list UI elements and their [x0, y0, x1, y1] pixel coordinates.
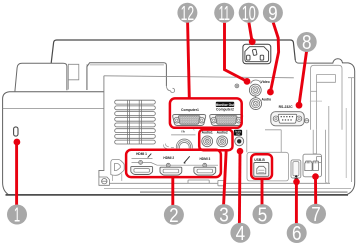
svg-text:Computer1: Computer1 [181, 108, 199, 112]
svg-text:HDMI 2: HDMI 2 [163, 156, 174, 160]
svg-text:11: 11 [218, 3, 230, 25]
svg-text:HDMI 1: HDMI 1 [136, 152, 147, 156]
svg-text:Computer2: Computer2 [216, 108, 234, 112]
svg-text:Audio: Audio [261, 97, 271, 101]
svg-text:USB-B: USB-B [254, 158, 265, 162]
svg-text:Y/k: Y/k [181, 129, 185, 133]
svg-text:6: 6 [292, 223, 302, 244]
svg-text:Out: Out [236, 133, 240, 136]
svg-text:Audio2: Audio2 [217, 130, 228, 134]
svg-text:Video: Video [261, 80, 270, 84]
svg-text:7: 7 [311, 204, 321, 226]
svg-text:10: 10 [242, 3, 256, 25]
svg-text:12: 12 [181, 3, 195, 25]
svg-text:Monitor Out: Monitor Out [216, 103, 236, 107]
svg-text:8: 8 [302, 32, 312, 54]
svg-text:9: 9 [268, 3, 278, 25]
svg-text:2: 2 [169, 205, 179, 227]
svg-text:HDMI 3: HDMI 3 [199, 157, 210, 161]
svg-text:RS-232C: RS-232C [279, 105, 293, 109]
svg-text:1: 1 [14, 205, 20, 227]
svg-text:4: 4 [236, 223, 246, 244]
svg-text:3: 3 [219, 204, 229, 226]
svg-text:5: 5 [258, 204, 268, 226]
svg-text:Audio1: Audio1 [202, 130, 213, 134]
